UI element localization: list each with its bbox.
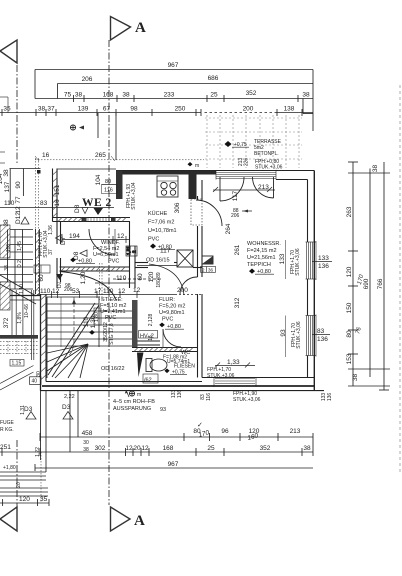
svg-text:372: 372 [3,317,10,328]
svg-text:261: 261 [234,244,241,255]
svg-text:137: 137 [4,181,11,192]
svg-text:37: 37 [48,249,54,255]
svg-text:1,22: 1,22 [35,447,41,457]
svg-text:150: 150 [346,302,353,313]
svg-text:120: 120 [148,271,155,282]
svg-text:213: 213 [290,428,301,435]
svg-text:U=21,56m1: U=21,56m1 [247,255,276,261]
svg-text:83: 83 [40,200,48,207]
svg-text:16: 16 [42,152,50,159]
svg-text:93: 93 [280,329,287,337]
svg-text:116: 116 [104,188,113,194]
svg-text:25: 25 [210,92,218,99]
svg-text:20: 20 [16,482,22,488]
svg-text:104: 104 [95,174,102,185]
svg-text:67: 67 [103,106,111,113]
svg-text:OD 16/15: OD 16/15 [146,258,170,264]
svg-text:38: 38 [352,374,359,382]
svg-text:38: 38 [3,219,10,227]
svg-text:37: 37 [47,106,55,113]
svg-text:133: 133 [318,255,329,262]
svg-text:265: 265 [95,152,106,159]
svg-text:168: 168 [103,92,114,99]
svg-text:20: 20 [133,445,141,452]
svg-text:1,45: 1,45 [17,241,23,251]
svg-text:967: 967 [168,461,179,468]
svg-text:96: 96 [221,428,229,435]
svg-text:1,10: 1,10 [19,284,25,294]
svg-text:12: 12 [52,288,60,295]
svg-text:STUK.+3,06: STUK.+3,06 [233,397,261,403]
svg-text:PVC: PVC [162,317,173,323]
svg-text:1,20: 1,20 [80,271,87,284]
svg-text:38: 38 [3,169,10,177]
svg-text:352: 352 [260,445,271,452]
svg-text:36: 36 [208,268,214,273]
svg-text:90: 90 [15,181,22,189]
svg-text:16: 16 [148,335,154,341]
svg-text:306: 306 [174,202,181,213]
svg-text:136: 136 [318,263,329,270]
svg-text:206: 206 [231,213,240,219]
svg-text:110: 110 [4,200,15,207]
svg-text:+1,80: +1,80 [3,465,16,471]
svg-text:120: 120 [346,266,353,277]
svg-text:F=5,20 m2: F=5,20 m2 [159,304,185,310]
svg-text:D 2: D 2 [17,260,23,268]
svg-text:168: 168 [163,445,174,452]
svg-text:250: 250 [175,106,186,113]
svg-text:233: 233 [164,92,175,99]
svg-text:38: 38 [302,92,310,99]
svg-text:STUK.+3,06: STUK.+3,06 [295,248,301,276]
svg-text:133: 133 [279,253,286,264]
svg-text:251: 251 [0,444,11,451]
svg-text:BETONPL.: BETONPL. [254,151,279,157]
svg-text:12: 12 [117,233,125,240]
svg-text:FLUR:: FLUR: [159,297,175,303]
svg-text:KÜCHE: KÜCHE [148,210,168,217]
svg-text:38: 38 [372,165,379,173]
svg-text:/62: /62 [144,378,152,384]
svg-text:200: 200 [177,287,188,294]
svg-text:PVC: PVC [148,237,159,243]
svg-text:PVC: PVC [105,315,116,321]
svg-text:F=24,15 m2: F=24,15 m2 [247,248,277,254]
svg-text:OD 16/22: OD 16/22 [101,366,125,372]
svg-text:138: 138 [284,106,295,113]
svg-text:98: 98 [130,106,138,113]
svg-text:F=7,06 m2: F=7,06 m2 [148,220,174,226]
svg-text:766: 766 [377,278,384,289]
svg-text:226: 226 [244,158,250,167]
svg-text:153: 153 [346,353,353,364]
svg-text:80: 80 [346,330,353,338]
svg-text:35: 35 [3,106,11,113]
svg-text:80: 80 [105,179,111,185]
svg-text:D3: D3 [62,404,71,411]
svg-text:40: 40 [32,379,38,385]
svg-text:30: 30 [36,371,42,377]
svg-text:AUSSPARUNG: AUSSPARUNG [113,406,151,412]
svg-text:38: 38 [303,445,311,452]
svg-text:38: 38 [122,92,130,99]
svg-text:TEPPICH: TEPPICH [247,262,271,268]
svg-text:12: 12 [141,445,149,452]
svg-text:U=10,78m1: U=10,78m1 [148,228,177,234]
svg-text:1,15: 1,15 [12,361,22,367]
svg-text:25: 25 [207,445,215,452]
svg-text:4–5 cm ROH–FB: 4–5 cm ROH–FB [113,399,155,405]
svg-text:38: 38 [4,265,10,271]
svg-text:302: 302 [95,445,106,452]
svg-text:104: 104 [0,173,4,184]
svg-text:117: 117 [160,248,171,255]
svg-text:967: 967 [168,62,179,69]
svg-text:1,8%: 1,8% [17,312,23,324]
svg-text:312: 312 [234,297,241,308]
svg-text:m: m [195,163,199,169]
svg-text:38: 38 [75,92,83,99]
svg-text:53: 53 [72,288,80,295]
svg-text:PVC: PVC [108,259,119,265]
svg-text:D8: D8 [74,204,81,213]
svg-text:A: A [135,20,146,36]
svg-text:93: 93 [160,407,166,413]
svg-text:60: 60 [137,273,144,281]
svg-text:U=6,50m1: U=6,50m1 [93,252,119,258]
svg-text:139: 139 [78,106,89,113]
svg-text:116: 116 [206,393,212,401]
svg-text:136: 136 [177,390,183,399]
svg-text:STUK.+3,04: STUK.+3,04 [131,182,137,210]
svg-text:38: 38 [38,106,46,113]
svg-text:STUK.+3,06: STUK.+3,06 [207,373,235,379]
svg-text:1,33: 1,33 [227,359,240,366]
svg-text:12: 12 [15,206,22,214]
svg-text:12: 12 [118,288,126,295]
svg-text:STUK.+3,06: STUK.+3,06 [296,321,302,349]
svg-text:352: 352 [246,90,257,97]
svg-text:686: 686 [208,75,219,82]
svg-text:WE 2: WE 2 [82,197,112,209]
svg-text:194: 194 [69,233,80,240]
svg-text:10–66: 10–66 [24,304,30,318]
svg-text:12: 12 [125,445,133,452]
svg-text:U=9,80m1: U=9,80m1 [159,310,185,316]
svg-text:38: 38 [83,447,89,453]
svg-text:R KG.: R KG. [0,427,14,433]
svg-text:1,80: 1,80 [94,312,100,322]
svg-text:105: 105 [6,244,12,253]
svg-text:83: 83 [317,328,325,335]
svg-text:458: 458 [82,430,93,437]
svg-text:D7: D7 [57,281,63,288]
svg-text:1,36: 1,36 [48,225,54,235]
svg-text:2,22: 2,22 [64,394,75,400]
svg-text:2,128: 2,128 [148,314,154,327]
svg-text:136: 136 [317,336,328,343]
svg-text:206: 206 [64,287,73,293]
svg-text:WOHNESSR.: WOHNESSR. [247,241,281,247]
svg-text:200: 200 [243,106,254,113]
svg-text:110: 110 [116,275,127,282]
svg-text:35: 35 [40,496,48,503]
svg-text:A: A [134,513,145,529]
svg-text:STG 17,8: STG 17,8 [109,323,115,345]
svg-text:264: 264 [225,223,232,234]
svg-text:STUK.+3,06: STUK.+3,06 [255,165,283,171]
svg-text:1,51: 1,51 [126,246,131,255]
svg-text:FUGE: FUGE [0,420,15,426]
svg-text:✓: ✓ [197,422,203,429]
svg-text:110: 110 [40,288,51,295]
svg-text:1,31: 1,31 [20,405,26,415]
svg-text:30: 30 [83,440,89,446]
svg-text:110: 110 [83,316,90,327]
svg-text:16: 16 [54,199,61,207]
svg-text:60: 60 [38,274,45,282]
svg-text:136: 136 [327,393,333,402]
svg-text:117: 117 [232,190,239,201]
svg-text:m: m [137,392,141,398]
svg-text:77: 77 [15,196,22,204]
svg-text:263: 263 [346,206,353,217]
svg-text:120: 120 [19,496,30,503]
svg-text:180/89: 180/89 [156,272,162,288]
svg-text:206: 206 [82,76,93,83]
svg-text:75: 75 [64,92,72,99]
